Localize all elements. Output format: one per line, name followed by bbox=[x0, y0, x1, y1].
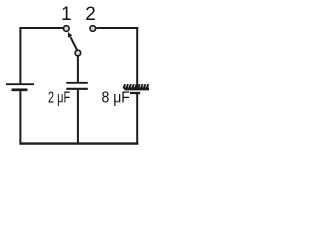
wire top-right rail bbox=[96, 27, 138, 29]
switch pole bbox=[75, 50, 81, 56]
wire below battery bbox=[19, 91, 21, 144]
wire left vertical bbox=[19, 27, 21, 84]
svg-text:1: 1 bbox=[61, 4, 72, 25]
capacitor C2 lower plate bbox=[130, 92, 140, 94]
svg-text:2: 2 bbox=[85, 4, 96, 25]
battery B1 bbox=[6, 84, 34, 90]
capacitor C2 hatched top plate bbox=[123, 84, 149, 89]
wire right vertical bbox=[136, 27, 138, 89]
svg-text:8 μF: 8 μF bbox=[102, 89, 130, 106]
wire pole stub bbox=[77, 56, 79, 82]
switch arm with arrowhead bbox=[68, 32, 78, 51]
wire below C1 bbox=[77, 90, 79, 144]
switch contact 2 bbox=[90, 26, 96, 32]
svg-text:2 μF: 2 μF bbox=[48, 89, 70, 106]
wire top-left rail bbox=[19, 27, 63, 29]
wire bottom rail bbox=[19, 142, 138, 144]
switch contact 1 bbox=[64, 26, 70, 32]
capacitor C1 2uF bbox=[66, 83, 88, 89]
wire below C2 bbox=[136, 94, 138, 144]
